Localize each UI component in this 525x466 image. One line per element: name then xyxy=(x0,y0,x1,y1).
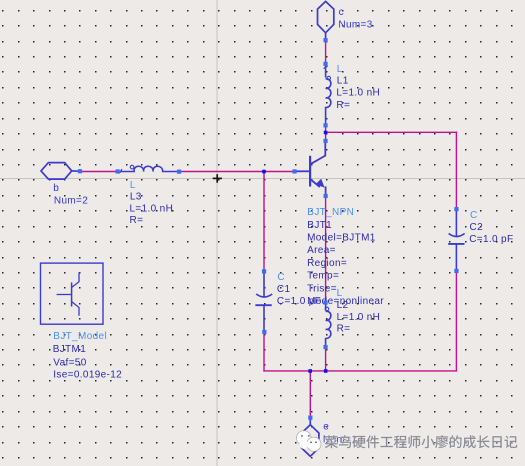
svg-text:Area=: Area= xyxy=(307,245,336,256)
wire rail to port e xyxy=(309,371,311,417)
wire top rail to C2 xyxy=(455,132,457,208)
port b symbol xyxy=(41,163,78,180)
svg-text:R=: R= xyxy=(336,100,350,111)
axis horizontal line xyxy=(0,178,525,180)
junction collector node xyxy=(324,131,328,135)
port c pin xyxy=(323,38,327,42)
port b pin xyxy=(78,169,82,173)
svg-text:Num=3: Num=3 xyxy=(338,20,372,31)
wire port c to L1 xyxy=(325,42,327,64)
svg-text:BJT1: BJT1 xyxy=(307,220,332,231)
svg-text:BJTM1: BJTM1 xyxy=(53,344,87,355)
svg-text:Model=BJTM1: Model=BJTM1 xyxy=(307,233,376,244)
port c symbol xyxy=(318,1,334,39)
L3 pins xyxy=(116,169,120,173)
wire emitter to L2 xyxy=(325,197,327,302)
junction rail-to-L2 xyxy=(324,369,328,373)
capacitor C2 xyxy=(448,210,464,270)
port e symbol xyxy=(302,419,319,457)
svg-text:C=1.0 pF: C=1.0 pF xyxy=(469,234,513,245)
inductor L3 xyxy=(119,165,177,173)
watermark logo xyxy=(297,431,322,452)
inductor L1 xyxy=(324,66,331,125)
svg-text:L1: L1 xyxy=(337,75,349,86)
L2 pins xyxy=(323,300,327,304)
wire collector rail xyxy=(326,131,458,133)
node base junction xyxy=(262,170,266,174)
wire bottom rail xyxy=(263,370,457,372)
svg-text:C: C xyxy=(470,210,478,221)
svg-text:BJT_NPN: BJT_NPN xyxy=(307,207,354,218)
svg-text:L: L xyxy=(130,180,136,191)
wire port b to L3 xyxy=(81,171,117,173)
svg-text:L: L xyxy=(337,64,343,75)
port e pin xyxy=(308,416,312,420)
svg-text:L3: L3 xyxy=(130,192,142,203)
capacitor C1 xyxy=(255,273,272,332)
wire C1 bottom to rail xyxy=(263,333,265,372)
axis vertical line xyxy=(216,0,218,466)
svg-text:C2: C2 xyxy=(470,222,484,233)
svg-text:L=1.0 nH: L=1.0 nH xyxy=(337,312,381,323)
svg-text:L: L xyxy=(337,288,343,299)
C2 pins xyxy=(454,207,458,211)
svg-text:Region=: Region= xyxy=(307,258,347,269)
wire L3 to base (through node) xyxy=(181,171,294,173)
C1 pins xyxy=(262,269,266,273)
svg-text:R=: R= xyxy=(337,324,351,335)
svg-text:Num=2: Num=2 xyxy=(54,195,88,206)
BJT_Model box xyxy=(41,263,104,324)
svg-text:c: c xyxy=(339,7,344,18)
L1 pins xyxy=(323,62,327,66)
transistor pins xyxy=(292,169,296,173)
svg-text:b: b xyxy=(53,183,59,194)
svg-text:L2: L2 xyxy=(337,300,349,311)
svg-text:L=1.0 nH: L=1.0 nH xyxy=(130,203,174,214)
junction rail-to-e xyxy=(308,369,312,373)
svg-text:BJT_Model: BJT_Model xyxy=(53,331,107,342)
wire L2 to rail xyxy=(325,348,327,371)
transistor Q1 BJT_NPN xyxy=(295,141,326,197)
svg-text:C: C xyxy=(277,272,285,283)
wire C2 bottom to rail xyxy=(455,272,457,371)
svg-text:R=: R= xyxy=(130,215,144,226)
svg-text:e: e xyxy=(323,422,329,433)
watermark text xyxy=(325,435,517,448)
svg-text:C1: C1 xyxy=(277,284,291,295)
svg-text:C=1.0 pF: C=1.0 pF xyxy=(277,296,321,307)
emitter arrow xyxy=(316,179,325,188)
svg-text:Temp=: Temp= xyxy=(307,271,339,282)
svg-text:Vaf=50: Vaf=50 xyxy=(53,357,86,368)
wire node to C1 top xyxy=(263,172,265,271)
svg-text:L=1.0 nH: L=1.0 nH xyxy=(336,88,380,99)
wire L1 to junction to collector xyxy=(325,126,327,140)
origin crosshair xyxy=(213,174,222,183)
inductor L2 xyxy=(325,304,331,346)
svg-text:Ise=0.019e-12: Ise=0.019e-12 xyxy=(53,370,122,381)
svg-text:Trise=: Trise= xyxy=(307,283,337,294)
